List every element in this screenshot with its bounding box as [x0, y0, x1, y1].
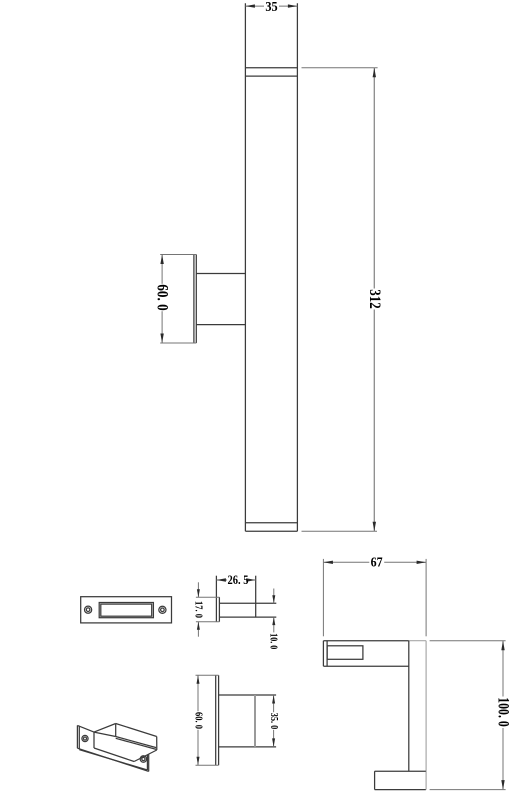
- bottom middle view: plate top edge + ext: [196, 674, 219, 676]
- small side view: plate bottom edge + ext: [196, 621, 220, 623]
- wall bracket plate line outer: [193, 255, 195, 344]
- svg-text:60. 0: 60. 0: [153, 284, 170, 311]
- flat view: mount plate outer rect: [81, 597, 172, 623]
- dim 67 left arrow: [323, 561, 333, 564]
- dim 100.0 ext line top: [430, 640, 506, 642]
- 3d view: plate left edge inner: [78, 726, 80, 749]
- 3d view: box right vertical edge C-C': [156, 737, 158, 751]
- wall bracket plate line inner: [195, 255, 197, 344]
- dim 60.0 top arrow: [160, 255, 163, 265]
- 3d view: box inner vertical edge B-E: [115, 724, 117, 737]
- dim 60.0 line upper segment: [161, 255, 163, 284]
- dim 60.0 bottom top arrow: [197, 675, 200, 684]
- small side view: mount plate line outer: [215, 576, 217, 622]
- lamp bar top band line 1: [245, 67, 297, 69]
- dim 10.0 upper arrow: [272, 595, 275, 603]
- dim 17.0 lower arrow: [197, 622, 200, 630]
- dim 35 left arrow: [245, 4, 255, 7]
- svg-text:35: 35: [265, 0, 278, 14]
- svg-text:26. 5: 26. 5: [228, 573, 249, 587]
- dim 35.0 line lower segment: [273, 730, 275, 747]
- dim 100.0 line lower segment: [502, 728, 504, 790]
- bottom right view: head top edge dark part: [323, 640, 408, 642]
- svg-text:312: 312: [366, 289, 383, 309]
- dim 26.5 line right segment: [250, 579, 256, 581]
- bottom right view: head bottom edge: [323, 665, 408, 667]
- 3d view: box top back-left edge A-B: [94, 724, 116, 733]
- svg-text:60. 0: 60. 0: [193, 712, 204, 729]
- 3d view: box bottom right edge D'-C': [134, 750, 157, 762]
- small side view: plate top edge + ext: [196, 596, 220, 598]
- dim 26.5 right arrow: [246, 578, 256, 581]
- dim 35 right arrow: [288, 4, 298, 7]
- lamp bar bottom band line: [245, 522, 297, 524]
- dim 35.0 bottom arrow: [272, 738, 275, 747]
- 3d view: screw hole 2 inner: [142, 757, 145, 760]
- bottom middle view: plate bottom edge + ext: [196, 764, 219, 766]
- dim 10.0 line upper segment: [273, 589, 275, 604]
- lamp bar top band line 2: [245, 75, 297, 77]
- dim 26.5 left arrow: [216, 578, 226, 581]
- bottom middle view: bracket plate line inner: [218, 675, 220, 765]
- flat view: window inner rect: [101, 604, 152, 616]
- dim 35.0 line upper segment: [273, 695, 275, 712]
- dim 100.0 bottom arrow: [501, 780, 504, 790]
- dim 312 ext line top: [302, 67, 378, 69]
- dim 312 bottom arrow: [373, 522, 376, 532]
- dim 17.0 line lower segment: [197, 622, 199, 637]
- small side view: arm bottom line + ext: [219, 616, 276, 618]
- dim 312 line upper segment: [373, 68, 375, 289]
- dim 60.0 ext line bottom (merged with plate bottom edge): [160, 342, 196, 344]
- svg-text:10. 0: 10. 0: [268, 633, 279, 649]
- 3d view: plate right edge outer: [148, 754, 150, 771]
- dim 17.0 upper arrow: [197, 589, 200, 597]
- dim 60.0 line lower segment: [161, 311, 163, 343]
- bottom right view: stem right edge (light): [425, 641, 427, 790]
- dim 35 line right segment: [279, 5, 297, 7]
- dim 312 top arrow: [373, 68, 376, 78]
- 3d view: box bottom front edge A'-D': [94, 748, 134, 762]
- dim 60.0 bottom arrow: [160, 334, 163, 344]
- 3d view: screw hole 1 outer: [82, 735, 88, 741]
- small side view: arm end line: [255, 576, 257, 617]
- small side view: arm top line + ext: [219, 602, 276, 604]
- 3d view: groove line 2: [116, 738, 157, 749]
- bracket arm bottom line: [196, 324, 245, 326]
- dim 312 ext line bottom: [302, 530, 378, 532]
- 3d view: screw hole 1 inner: [83, 737, 86, 740]
- bracket arm top line: [196, 273, 245, 275]
- 3d view: plate bottom edge outer: [77, 748, 148, 771]
- dim 67 ext line right: [425, 559, 427, 636]
- dim 60.0 bottom line upper segment: [197, 675, 199, 711]
- dim 67 right arrow: [417, 561, 427, 564]
- dim 100.0 ext line bottom: [430, 789, 506, 791]
- svg-text:17. 0: 17. 0: [192, 601, 203, 618]
- bottom middle view: arm top line + ext: [219, 694, 277, 696]
- flat view: left screw hole inner: [86, 608, 90, 612]
- main front view: lamp bar left edge: [244, 3, 246, 531]
- dim 67 line right segment: [384, 561, 426, 563]
- bottom right view: head top edge light part: [409, 640, 426, 642]
- bottom right view: base bottom edge: [375, 789, 426, 791]
- dim 10.0 lower arrow: [272, 617, 275, 625]
- dim 10.0 line lower segment: [273, 617, 275, 632]
- small side view: mount plate line inner: [218, 597, 220, 622]
- 3d view: box top front edge A-E: [94, 732, 116, 736]
- bottom right view: head left edge outer: [322, 641, 324, 667]
- flat view: window outer rect: [99, 603, 153, 618]
- 3d view: groove line 1: [116, 737, 157, 748]
- dim 60.0 bottom bottom arrow: [197, 757, 200, 766]
- main front view: lamp bar right edge: [296, 3, 298, 531]
- dim 67 ext line left: [322, 559, 324, 636]
- lamp bar bottom edge: [245, 530, 297, 532]
- bottom right view: lamp window rect: [327, 646, 363, 660]
- 3d view: plate right edge inner: [146, 755, 148, 770]
- flat view: right screw hole outer: [159, 606, 166, 613]
- dim 312 line lower segment: [373, 310, 375, 532]
- dim 17.0 line upper segment: [197, 582, 199, 597]
- svg-text:35. 0: 35. 0: [268, 713, 279, 730]
- dim 100.0 line upper segment: [502, 641, 504, 697]
- 3d view: box front-left vertical edge A-A': [93, 732, 95, 748]
- 3d view: plate bottom edge inner: [79, 750, 147, 770]
- 3d view: screw hole 2 outer: [140, 756, 146, 762]
- svg-text:67: 67: [371, 555, 383, 570]
- 3d view: box top back-right edge B-C: [116, 724, 157, 737]
- dim 35.0 top arrow: [272, 695, 275, 704]
- bottom right view: base left edge: [374, 771, 376, 789]
- bottom right view: head left edge inner: [326, 641, 328, 667]
- 3d view: plate top edge: [77, 725, 94, 732]
- bottom right view: stem left edge: [408, 641, 410, 772]
- svg-text:100. 0: 100. 0: [495, 697, 512, 727]
- flat view: right screw hole inner: [161, 608, 165, 612]
- dim 35 line left segment: [245, 5, 264, 7]
- flat view: left screw hole outer: [85, 606, 92, 613]
- dim 60.0 bottom line lower segment: [197, 730, 199, 766]
- dim 60.0 ext line top (merged with plate top edge): [160, 254, 196, 256]
- 3d view: plate left edge outer: [76, 725, 78, 748]
- bottom middle view: bracket plate line outer: [215, 675, 217, 765]
- bottom middle view: arm bottom line + ext: [219, 746, 277, 748]
- bottom middle view: arm end line (light): [254, 695, 256, 747]
- dim 67 line left segment: [324, 561, 370, 563]
- dim 26.5 line left segment: [216, 579, 227, 581]
- dim 100.0 top arrow: [501, 641, 504, 651]
- bottom right view: base top edge: [375, 770, 426, 772]
